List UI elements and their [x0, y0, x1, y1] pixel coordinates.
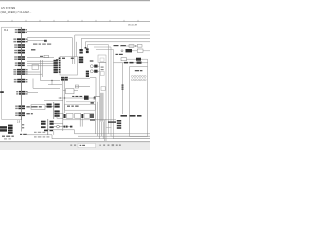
- wire row 80: [41, 80, 61, 82]
- wire label dashes row 11: [26, 113, 32, 114]
- connector pin block row 8: [14, 79, 28, 83]
- junction label box: [44, 55, 48, 58]
- connector pin block row 4: [14, 50, 25, 54]
- ECU box B-2: [2, 27, 22, 119]
- in-box dashes: [62, 58, 74, 59]
- component box row y113 #2: [66, 113, 73, 118]
- junction label dash: [40, 56, 43, 57]
- bottom cluster mid: [41, 121, 54, 132]
- wire vertical second: [64, 77, 66, 113]
- relay row 1 wire: [120, 45, 137, 47]
- label marks left: [91, 102, 94, 103]
- node marks left of box: [122, 85, 124, 90]
- faint dash row below: [4, 138, 11, 139]
- bottom horizontal wire 2: [78, 135, 150, 137]
- wire out of block: [89, 97, 94, 99]
- cluster bus: [53, 102, 55, 119]
- connector pair x86: [86, 48, 89, 53]
- relay row 2 contact: [121, 50, 123, 52]
- connector box right: [130, 67, 148, 137]
- connector pin block row 5: [14, 56, 25, 60]
- inline blob: [70, 126, 72, 128]
- wire to center cluster 3: [27, 65, 54, 67]
- sheet top border: [0, 21, 150, 23]
- wire pair down continuation: [72, 42, 76, 64]
- wire pair down 2: [41, 60, 43, 77]
- pager prev buttons: [70, 145, 76, 146]
- connector pin block row 3: [14, 44, 25, 48]
- connector pin circles row2: [131, 79, 146, 81]
- box stub right: [74, 90, 78, 92]
- wire with bulb: [54, 126, 57, 128]
- wire row 72: [27, 71, 41, 73]
- bundle left lines: [95, 97, 99, 139]
- wire into harness: [94, 96, 100, 98]
- label text near 90,120: [90, 119, 121, 129]
- relay row 2 coil block: [126, 49, 133, 52]
- wire top feed: [27, 30, 150, 32]
- sheet bottom border: [0, 140, 150, 142]
- pager next and zoom icons: [99, 144, 120, 146]
- component box center: [60, 57, 78, 76]
- lamp L2: [90, 70, 93, 73]
- component box row y113 #1: [57, 113, 63, 118]
- wire mid: [27, 57, 54, 59]
- FIG box label dashes: [33, 106, 42, 107]
- small box above harness: [101, 87, 105, 91]
- connector pin block row 6: [15, 62, 25, 66]
- tall box inner small box: [100, 72, 104, 76]
- wire row 78 to right: [69, 77, 91, 79]
- connector pin block row 1: [15, 29, 27, 33]
- connector pin block row 2: [13, 38, 27, 42]
- connector pin block row 10: [15, 105, 25, 109]
- connector pin block row 9: [16, 91, 27, 95]
- wire lamp feed: [98, 65, 100, 67]
- footer shade line: [0, 142, 150, 143]
- junction dot: [51, 80, 52, 81]
- faint label dashes row 136: [34, 136, 49, 137]
- wire stub row2: [27, 40, 44, 42]
- lamp L2 contact block: [94, 70, 97, 73]
- svg-text:12V SYSTEM: 12V SYSTEM: [1, 8, 15, 10]
- nested box corner 1: [88, 45, 109, 134]
- bulb circle: [57, 125, 60, 128]
- window top edge: [0, 0, 150, 1]
- component small box 86: [75, 85, 79, 88]
- wire label dashes row 43: [33, 44, 51, 45]
- bus continuation below box: [21, 119, 23, 131]
- component box row y113 #3: [75, 113, 81, 118]
- small box on top of tall box: [98, 55, 106, 63]
- center vertical bus pair: [62, 77, 64, 131]
- small box top mid: [66, 89, 75, 94]
- pager input field: [78, 143, 96, 147]
- pager input text: [80, 145, 85, 146]
- center bottom connector cluster: [47, 104, 60, 117]
- wire riser to 41.8: [85, 42, 150, 48]
- component dark block on wire 98: [84, 96, 89, 100]
- pin bus line: [21, 27, 23, 120]
- wire L down-right: [33, 79, 60, 89]
- text row near 116: [121, 115, 142, 117]
- wire drop: [51, 81, 53, 85]
- dark dash: [81, 114, 83, 118]
- wire cont2: [68, 126, 72, 128]
- wire label dashes row 10: [26, 106, 32, 107]
- bottom cluster bus: [47, 119, 49, 135]
- connector box label dashes: [135, 70, 143, 71]
- nested box corner 2: [94, 47, 150, 136]
- wire bus h 62.8: [114, 62, 149, 64]
- junction dot 2: [64, 97, 65, 98]
- center connector stack: [54, 60, 58, 73]
- wire lamp feed 2: [98, 70, 100, 72]
- wire to center cluster 2: [27, 63, 54, 65]
- faint label dashes row 131: [34, 132, 45, 133]
- wire corner down to bottom bus: [48, 130, 75, 134]
- end component dash: [44, 40, 47, 42]
- lamp L1: [90, 65, 93, 68]
- tall box: [100, 63, 107, 120]
- relay row 2 label dashes: [116, 54, 123, 55]
- bottom horizontal wire 3 with left corner: [27, 135, 150, 139]
- border tick marks: [12, 20, 138, 22]
- wire to center cluster 1: [27, 60, 54, 62]
- flat component box: [65, 104, 96, 110]
- wire row 84: [48, 84, 62, 86]
- gray harness bar: [100, 93, 104, 122]
- wire row 86: [75, 86, 90, 88]
- nested box corner 3: [96, 50, 150, 139]
- bottom-left dark connector stack: [0, 125, 13, 134]
- vertical wire 122: [122, 63, 124, 114]
- junction dot 1: [60, 97, 61, 98]
- wire row 92: [27, 92, 38, 94]
- relay R1 box: [137, 49, 143, 52]
- relay row1 box2: [137, 45, 142, 48]
- connector pin block row 7: [13, 69, 27, 75]
- svg-text:(30A_1FE01) 7 CLAAM…: (30A_1FE01) 7 CLAAM…: [1, 10, 32, 14]
- box stub left: [63, 90, 66, 92]
- lamp L1 contact block: [94, 65, 97, 68]
- relay row 3 box: [121, 58, 127, 61]
- arrow dashes: [94, 97, 96, 99]
- label FIG dashes: [31, 49, 35, 50]
- connector stack x80 upper: [79, 49, 82, 54]
- flat box inner dashes: [67, 106, 79, 107]
- second drop to bottom wire: [53, 131, 55, 135]
- wire row 74: [27, 73, 42, 75]
- relay row 3 wire out corner: [141, 59, 148, 66]
- dark blocks between: [64, 114, 66, 118]
- tall box inner text: [101, 67, 104, 71]
- bundle mid lines: [101, 120, 106, 141]
- center stack extra column: [59, 58, 61, 73]
- relay row1 junction dot: [135, 45, 136, 46]
- wire row 119.8: [63, 119, 116, 121]
- wire label dashes above row 98: [72, 96, 82, 97]
- wire pair down 1: [40, 60, 42, 81]
- bottom-left label dashes: [2, 136, 14, 137]
- wire drop pair from box3: [80, 118, 82, 126]
- inner mark: [100, 58, 104, 62]
- vertical wire x87.5 drop from box corner: [87, 45, 89, 53]
- wire row 77.5 drop: [90, 78, 96, 97]
- node a marker: [0, 91, 4, 93]
- connector pin circles row1: [131, 75, 146, 77]
- component box row y113 #4: [84, 113, 90, 118]
- small box left: [32, 65, 39, 70]
- connector pin block row 11: [15, 112, 25, 116]
- relay row 3 block: [136, 58, 141, 61]
- FIG box left: [31, 105, 45, 110]
- wire second feed with drop: [27, 38, 72, 52]
- main wire row 98: [59, 97, 85, 99]
- wire riser to 38.5: [81, 39, 150, 50]
- dark dash x85: [85, 47, 87, 49]
- bottom wire from cluster: [54, 122, 63, 124]
- svg-text:B-2: B-2: [4, 29, 9, 32]
- wire row 101.8: [66, 101, 95, 103]
- long wire left segment: [44, 99, 63, 101]
- svg-text:1E-10 2E: 1E-10 2E: [128, 25, 138, 27]
- wire cont: [59, 126, 63, 128]
- inline connector halves: [64, 126, 68, 128]
- dark block pair right: [90, 114, 94, 118]
- bottom label dashes row2: [20, 134, 27, 135]
- relay row 2 wire: [132, 50, 137, 52]
- short wire row 106.6: [45, 106, 54, 108]
- footer background: [0, 142, 150, 150]
- relay row 3 wire: [127, 58, 137, 60]
- tiny label left of box: [56, 59, 59, 60]
- wire riser to 35: [75, 35, 150, 52]
- lamp label dashes: [90, 60, 94, 61]
- relay row1 box: [129, 45, 134, 48]
- relay row 2 wire out: [143, 50, 150, 52]
- dark block col x86 lower: [86, 71, 89, 77]
- wire label on bus: [124, 62, 142, 64]
- inline tick rungs: [22, 124, 24, 128]
- connector stack x79 lower: [79, 57, 83, 64]
- relay row 1 label dashes: [114, 45, 126, 46]
- center dark block rows 77-81: [61, 77, 68, 81]
- short hline in bundle: [106, 127, 112, 129]
- bottom horizontal wire 1: [75, 133, 151, 135]
